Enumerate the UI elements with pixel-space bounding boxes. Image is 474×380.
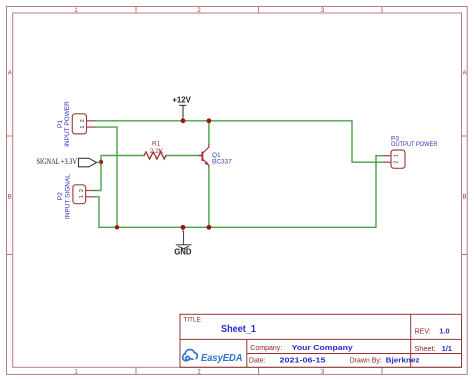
svg-text:2: 2 (80, 119, 86, 122)
svg-text:1.0: 1.0 (439, 327, 449, 336)
svg-text:P2: P2 (57, 192, 64, 200)
svg-text:+12V: +12V (172, 95, 191, 104)
svg-text:2021-06-15: 2021-06-15 (280, 356, 326, 365)
svg-text:REV:: REV: (415, 329, 431, 336)
svg-text:B: B (8, 195, 12, 201)
svg-text:TITLE:: TITLE: (184, 316, 203, 323)
svg-text:Drawn By:: Drawn By: (350, 358, 382, 365)
svg-text:INPUT SIGNAL: INPUT SIGNAL (64, 174, 71, 219)
svg-text:P1: P1 (57, 120, 64, 128)
svg-text:Sheet_1: Sheet_1 (221, 324, 256, 335)
svg-text:GND: GND (174, 247, 192, 256)
svg-text:Company:: Company: (250, 345, 282, 352)
svg-text:A: A (462, 71, 466, 77)
svg-text:OUTPUT POWER: OUTPUT POWER (391, 141, 438, 148)
svg-text:1: 1 (79, 195, 85, 198)
svg-text:2: 2 (79, 189, 85, 192)
svg-text:1: 1 (80, 126, 86, 129)
svg-text:BC337: BC337 (212, 158, 232, 165)
svg-text:INPUT POWER: INPUT POWER (64, 101, 71, 147)
svg-text:A: A (8, 71, 12, 77)
svg-text:1/1: 1/1 (442, 344, 452, 353)
svg-text:Your Company: Your Company (292, 343, 354, 352)
svg-text:Sheet:: Sheet: (414, 346, 435, 353)
svg-text:1: 1 (394, 154, 400, 157)
svg-text:EasyEDA: EasyEDA (201, 353, 243, 364)
svg-text:2: 2 (394, 161, 400, 164)
svg-text:B: B (462, 195, 466, 201)
svg-text:Bjerknez: Bjerknez (386, 356, 420, 365)
svg-text:R1: R1 (152, 141, 161, 148)
svg-text:Date:: Date: (249, 358, 266, 365)
svg-text:2.2K: 2.2K (150, 148, 164, 155)
svg-text:SIGNAL +3.3V: SIGNAL +3.3V (37, 157, 78, 166)
